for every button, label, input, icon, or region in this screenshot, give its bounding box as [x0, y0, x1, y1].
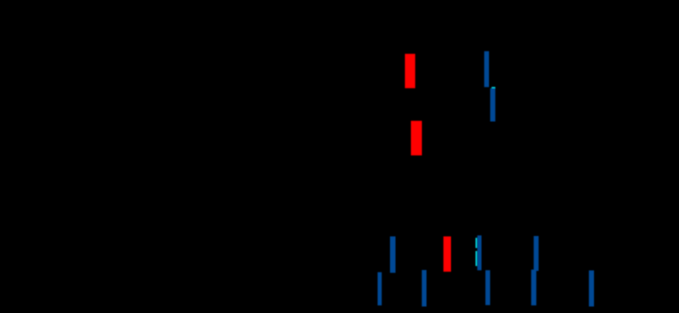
- bond N blue segment B3 (bottom row, upper bar at x390): [390, 236, 396, 272]
- bond N blue segment B1 (top-right amine, upper bond): [484, 51, 489, 87]
- bond N blue segment B4 (bottom row, lower bar at x378): [378, 272, 382, 305]
- bond F cyan thin segment C1a: [476, 238, 478, 248]
- bond N blue segment B7 (bottom row, lower bar at x485): [485, 270, 490, 305]
- bond N blue segment B10 (bottom row, lower bar at x589): [589, 270, 594, 306]
- bond O red segment R1 (upper carbonyl, top half): [405, 54, 415, 88]
- bond F cyan thin segment C1b: [476, 251, 478, 266]
- cyan tick on top edge of B2: [492, 87, 496, 89]
- bond N blue segment B8 (bottom row, upper bar at x534): [534, 236, 539, 271]
- bond N blue segment B6 (bottom row, upper bar at x477): [477, 235, 481, 270]
- bond N blue segment B5 (bottom row, lower bar at x422): [422, 270, 427, 307]
- bond O red segment R2 (upper carbonyl, lower half): [411, 121, 422, 156]
- bond N blue segment B9 (bottom row, lower bar at x531): [531, 270, 536, 306]
- bond N blue segment B2 (top-right amine, lower bond): [490, 88, 495, 121]
- bond O red segment R3 (bottom row carbonyl at x443): [443, 236, 451, 271]
